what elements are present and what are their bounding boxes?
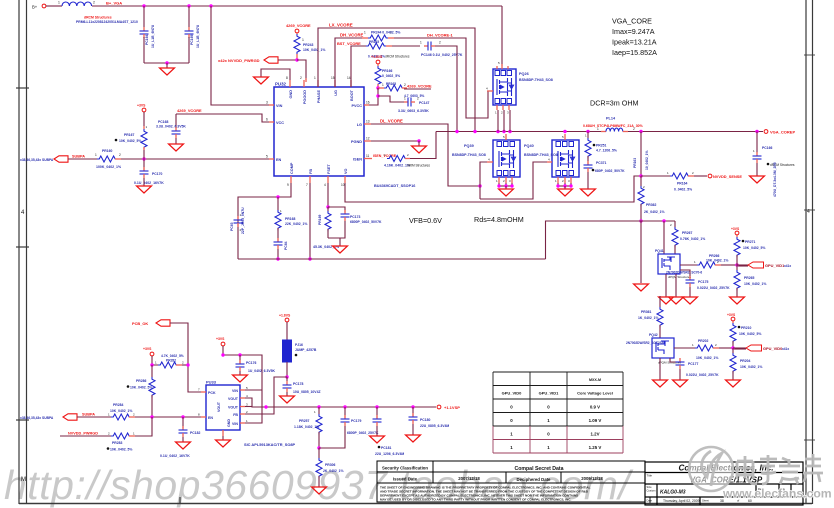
svg-text:SIC APL5913KAC/TR_SO8P: SIC APL5913KAC/TR_SO8P [244, 442, 296, 447]
svg-text:4.7_1206_5%: 4.7_1206_5% [596, 149, 617, 153]
svg-text:14: 14 [347, 76, 351, 80]
svg-text:GPU_VID1: GPU_VID1 [539, 391, 560, 396]
svg-text:+1.1VSP: +1.1VSP [444, 405, 460, 410]
svg-text:4269_VCORE: 4269_VCORE [177, 108, 202, 113]
svg-text:PR164: PR164 [677, 182, 687, 186]
op-amp U1: PWM controller PU32 [274, 87, 364, 176]
wire [92, 5, 502, 7]
svg-text:2K_0402_1%: 2K_0402_1% [323, 469, 344, 473]
svg-text:0_0402_5%: 0_0402_5% [674, 188, 692, 192]
wire B+ to VIN [211, 6, 269, 105]
svg-text:BSN8DP-TH43_SO8: BSN8DP-TH43_SO8 [524, 153, 558, 157]
svg-text:Deciphered Date: Deciphered Date [517, 477, 552, 482]
capacitor PC147 [378, 96, 404, 102]
wire PVCC [369, 88, 378, 105]
ground [166, 63, 168, 68]
capacitor PC182 on EN [182, 417, 184, 428]
resistor PR257 [318, 407, 320, 414]
resistor PR245 [366, 43, 386, 49]
svg-text:x41x: x41x [782, 347, 789, 351]
pin stubs top [289, 80, 291, 87]
svg-text:B+_VGA: B+_VGA [106, 1, 122, 6]
svg-text:0.1U_0402_16V7K: 0.1U_0402_16V7K [160, 454, 190, 458]
svg-text:x42x NVVDD_PWRGD: x42x NVVDD_PWRGD [218, 58, 260, 63]
svg-text:PC165: PC165 [190, 35, 194, 45]
transistor source ground [665, 274, 667, 297]
transistor Q4: PQ41 [663, 221, 665, 254]
svg-text:22U_0805_6.3V4M: 22U_0805_6.3V4M [420, 424, 449, 428]
svg-text:Size: Size [647, 485, 653, 489]
svg-text:SUBPA: SUBPA [72, 155, 85, 159]
right title block [645, 462, 803, 505]
svg-text:GPU_VID1: GPU_VID1 [765, 263, 785, 268]
svg-text:PC179: PC179 [351, 419, 361, 423]
svg-text:PCB_OK: PCB_OK [132, 321, 148, 326]
svg-text:GPU_VID0: GPU_VID0 [763, 346, 782, 351]
svg-text:FSET: FSET [327, 164, 331, 174]
svg-text:VFB=0.6V: VFB=0.6V [409, 216, 442, 225]
svg-text:PR361: PR361 [641, 310, 651, 314]
svg-text:PC180: PC180 [420, 418, 430, 422]
svg-text:PJ16: PJ16 [295, 343, 303, 347]
svg-text:470U_D7.3x4.3M_2R5: 470U_D7.3x4.3M_2R5 [773, 162, 777, 197]
svg-text:3.3U_0402_6.3V5K: 3.3U_0402_6.3V5K [156, 125, 186, 129]
capacitor PC165 [188, 6, 190, 27]
svg-text:1U_L1B_6N7U: 1U_L1B_6N7U [151, 24, 155, 48]
transistor source ground [659, 358, 661, 380]
svg-text:10K_0402_1%: 10K_0402_1% [110, 409, 132, 413]
svg-text:www.elecfans.com: www.elecfans.com [722, 487, 832, 501]
svg-text:2: 2 [633, 127, 635, 131]
svg-text:10K_0402_1%: 10K_0402_1% [744, 282, 766, 286]
svg-text:PC177: PC177 [688, 362, 698, 366]
capacitor PC177 [670, 358, 678, 362]
svg-text:GND: GND [289, 90, 293, 99]
svg-text:PC173: PC173 [350, 215, 360, 219]
svg-text:PL14: PL14 [606, 117, 616, 121]
svg-text:1: 1 [404, 97, 406, 101]
svg-text:VIN: VIN [232, 422, 238, 426]
svg-text:1K_0402_1%: 1K_0402_1% [638, 316, 659, 320]
svg-text:VIN: VIN [276, 104, 283, 108]
capacitor PC371 [584, 161, 593, 172]
svg-text:Issued Date: Issued Date [393, 477, 418, 482]
svg-text:2: 2 [439, 41, 441, 45]
svg-text:+3VS: +3VS [216, 337, 225, 341]
svg-text:COMP: COMP [290, 162, 294, 174]
svg-text:x41x: x41x [784, 264, 791, 268]
svg-text:10U_0805_10V4Z: 10U_0805_10V4Z [293, 390, 321, 394]
svg-text:MXX-M: MXX-M [589, 378, 601, 382]
feedback bus [546, 221, 676, 259]
svg-text:PCK: PCK [208, 391, 216, 395]
svg-text:9: 9 [287, 183, 289, 187]
svg-text:dRtM Structures: dRtM Structures [407, 164, 430, 168]
svg-text:JUMP_4257B: JUMP_4257B [295, 348, 317, 352]
svg-text:7: 7 [306, 183, 308, 187]
svg-text:2: 2 [404, 83, 406, 87]
svg-text:10K_0402_5%: 10K_0402_5% [743, 246, 765, 250]
resistor PR265 [736, 265, 738, 270]
svg-text:PR306: PR306 [325, 463, 335, 467]
svg-text:VGA_CORE: VGA_CORE [612, 17, 652, 26]
capacitor PC180 [412, 407, 414, 416]
svg-text:15: 15 [331, 76, 335, 80]
sheet border bottom [19, 503, 812, 505]
svg-text:0.76K_0402_1%: 0.76K_0402_1% [680, 237, 705, 241]
transistor Q3: PQ40 [552, 140, 579, 177]
svg-text:dPQM Structures: dPQM Structures [668, 275, 692, 279]
transistor Q1: PQ26 [501, 6, 503, 66]
svg-text:0.9 V: 0.9 V [590, 405, 600, 410]
svg-text:PR202: PR202 [698, 339, 708, 343]
svg-text:UG: UG [334, 90, 338, 96]
svg-text:10K_0402_1%: 10K_0402_1% [706, 259, 728, 263]
sheet border left [16, 0, 29, 504]
wire FB [309, 183, 311, 259]
capacitor PC175 [680, 270, 690, 276]
capacitor PC166 output [756, 132, 758, 154]
svg-text:Core Voltage Level: Core Voltage Level [577, 391, 613, 396]
svg-text:1: 1 [420, 41, 422, 45]
svg-text:6800P_0402_25V7K: 6800P_0402_25V7K [347, 431, 379, 435]
svg-text:22U_1206_6.3V4M: 22U_1206_6.3V4M [375, 452, 404, 456]
svg-text:+3VS: +3VS [143, 347, 152, 351]
svg-text:2: 2 [417, 97, 419, 101]
resistor PR164 / node NVVDD_SENSE [641, 175, 670, 177]
svg-text:BU4369CADT_SSOP16: BU4369CADT_SSOP16 [374, 184, 415, 188]
svg-text:2: 2 [93, 1, 95, 5]
wire [144, 62, 189, 64]
svg-text:PR362: PR362 [646, 203, 656, 207]
svg-text:PR284: PR284 [113, 403, 123, 407]
capacitor PC178 [283, 381, 292, 392]
svg-text:PC168: PC168 [158, 120, 168, 124]
svg-text:dRCM Structures: dRCM Structures [385, 55, 410, 59]
svg-text:2: 2 [119, 153, 121, 157]
svg-text:2K_0402_1%: 2K_0402_1% [644, 210, 665, 214]
svg-text:BOOT: BOOT [350, 89, 354, 101]
svg-text:PC63: PC63 [230, 222, 234, 231]
svg-text:12: 12 [366, 137, 370, 141]
svg-text:PC175: PC175 [698, 280, 708, 284]
capacitor PC168 [175, 114, 177, 127]
wire COMP [238, 183, 291, 259]
leaf circle [689, 447, 733, 491]
svg-text:1: 1 [314, 76, 316, 80]
capacitor PC170 [140, 167, 149, 178]
capacitor PC164 [143, 6, 145, 27]
svg-text:x38,36,35,43x SUBPA: x38,36,35,43x SUBPA [20, 416, 54, 420]
svg-text:1.25 V: 1.25 V [589, 445, 602, 450]
svg-text:+3VS: +3VS [731, 227, 740, 231]
svg-text:PR283: PR283 [112, 441, 122, 445]
svg-text:BST_VCORE: BST_VCORE [337, 41, 361, 46]
svg-text:PHASE: PHASE [317, 90, 321, 104]
svg-text:GPU_VID0: GPU_VID0 [502, 391, 523, 396]
svg-text:PC181: PC181 [381, 446, 391, 450]
svg-text:PC164: PC164 [145, 35, 149, 45]
resistor PR362 [640, 176, 642, 186]
svg-text:1.2V: 1.2V [590, 432, 599, 437]
capacitor PC181 [376, 407, 378, 418]
svg-text:PC170: PC170 [152, 172, 162, 176]
resistor PR202 [674, 347, 695, 349]
svg-text:4.7_0603_5%: 4.7_0603_5% [404, 94, 424, 98]
svg-text:2007/12/18: 2007/12/18 [458, 476, 480, 481]
resistor PR251 snubber [587, 132, 589, 139]
transistor Q5: PQ42 [652, 338, 674, 358]
svg-text:PR168: PR168 [285, 217, 295, 221]
svg-text:+1.8VS: +1.8VS [371, 55, 383, 59]
svg-text:DCR=3m OHM: DCR=3m OHM [590, 99, 639, 108]
svg-text:FB: FB [309, 169, 313, 174]
svg-text:1: 1 [364, 31, 366, 35]
svg-text:1: 1 [597, 127, 599, 131]
svg-text:+3VS: +3VS [137, 104, 146, 108]
svg-text:PC371: PC371 [596, 161, 606, 165]
svg-text:8: 8 [286, 76, 288, 80]
svg-text:PR169: PR169 [318, 215, 322, 225]
svg-text:1: 1 [302, 38, 304, 42]
svg-text:PGND: PGND [351, 140, 362, 144]
svg-text:LX_VCORE: LX_VCORE [329, 23, 353, 28]
svg-text:100K_0402_1%: 100K_0402_1% [96, 165, 122, 169]
svg-text:B+: B+ [32, 5, 38, 10]
svg-text:DL_VCORE: DL_VCORE [380, 119, 403, 124]
svg-text:SUBPA: SUBPA [82, 413, 95, 417]
capacitor PC64 [274, 238, 283, 249]
svg-text:5: 5 [266, 155, 268, 159]
svg-text:4.7K_0402_5%: 4.7K_0402_5% [161, 354, 184, 358]
svg-text:VIN: VIN [232, 389, 238, 393]
svg-text:1: 1 [382, 83, 384, 87]
svg-text:PR204: PR204 [740, 359, 750, 363]
capacitor PC176 [239, 355, 241, 363]
svg-text:2: 2 [300, 76, 302, 80]
svg-text:1: 1 [95, 153, 97, 157]
svg-text:PQ39: PQ39 [464, 144, 474, 148]
wire BOOT / BST_VCORE [351, 46, 366, 87]
svg-text:PR251: PR251 [596, 144, 606, 148]
node VGA_COREP [764, 130, 768, 134]
svg-text:1: 1 [58, 1, 60, 5]
svg-text:10K_0402_5%: 10K_0402_5% [130, 386, 152, 390]
svg-text:0.1U_0402_16V7K: 0.1U_0402_16V7K [134, 181, 164, 185]
svg-text:EN: EN [208, 416, 213, 420]
node GPU_VID1 [737, 264, 748, 266]
svg-text:6: 6 [266, 118, 268, 122]
wire comp bottom bus [238, 258, 546, 260]
svg-text:PU33: PU33 [206, 380, 217, 385]
svg-text:EN: EN [276, 158, 282, 162]
svg-text:PU32: PU32 [275, 82, 287, 87]
ground at GND pin [261, 69, 290, 80]
svg-text:Title: Title [647, 474, 653, 478]
svg-text:PC182: PC182 [190, 431, 200, 435]
svg-text:NVVDD_PWRGD: NVVDD_PWRGD [68, 432, 98, 436]
wire VO sense [345, 176, 641, 202]
svg-text:MAY BE USED BY OR DISCLOSED TO: MAY BE USED BY OR DISCLOSED TO ANY THIRD… [380, 498, 571, 502]
svg-text:PR160: PR160 [102, 149, 112, 153]
svg-text:10K_0402_1%: 10K_0402_1% [696, 356, 718, 360]
resistor PR361 [659, 296, 661, 307]
ground drop [640, 221, 642, 283]
svg-text:VOUT: VOUT [228, 397, 239, 401]
wire FSET network [327, 183, 329, 207]
transistor Q2: PQ39 [493, 140, 520, 177]
svg-text:4269_VCORE: 4269_VCORE [286, 23, 311, 28]
resistor PR267 [674, 221, 676, 227]
svg-text:PR163: PR163 [633, 158, 637, 168]
svg-text:VCC: VCC [276, 121, 284, 125]
capacitor PC179 [344, 407, 346, 418]
svg-text:PR286: PR286 [136, 379, 146, 383]
svg-text:PR210: PR210 [741, 326, 751, 330]
svg-text:11: 11 [366, 154, 370, 158]
svg-text:PVCC: PVCC [351, 104, 362, 108]
svg-text:BSN8DP-TH43_SO8: BSN8DP-TH43_SO8 [452, 153, 486, 157]
svg-text:LG: LG [357, 123, 362, 127]
svg-text:PC176: PC176 [246, 361, 256, 365]
svg-text:PC166: PC166 [762, 146, 772, 150]
svg-text:VGA_COREP: VGA_COREP [770, 130, 795, 135]
wire UG / DH_VCORE [335, 38, 362, 87]
ground at PGND [371, 140, 419, 142]
svg-text:Date: Date [647, 499, 653, 503]
svg-text:Compal Secret Data: Compal Secret Data [514, 466, 563, 472]
svg-text:1U_0402_6.3V5K: 1U_0402_6.3V5K [248, 369, 276, 373]
svg-text:FB: FB [233, 413, 238, 417]
resistor PR266 [680, 264, 697, 266]
svg-text:2N7002DW/SR2_SC70-6: 2N7002DW/SR2_SC70-6 [666, 271, 702, 275]
svg-text:3: 3 [266, 101, 268, 105]
svg-text:PR265: PR265 [744, 276, 754, 280]
pin stubs left [269, 104, 274, 106]
node GPU_VID0 [733, 347, 746, 349]
svg-text:PR243: PR243 [303, 43, 313, 47]
svg-text:PR266: PR266 [709, 254, 719, 258]
svg-text:1.09 V: 1.09 V [589, 418, 602, 423]
svg-text:DH_VCORE: DH_VCORE [340, 33, 363, 38]
svg-text:10K_0402_1%: 10K_0402_1% [303, 48, 325, 52]
svg-text:NVVDD_SENSE: NVVDD_SENSE [713, 174, 742, 179]
svg-text:PR257: PR257 [299, 419, 309, 423]
svg-text:0.022U_0402_25V7K: 0.022U_0402_25V7K [686, 373, 719, 377]
svg-text:1.18K_0402_1%: 1.18K_0402_1% [294, 425, 319, 429]
svg-text:PQ40: PQ40 [524, 144, 534, 148]
svg-text:PR271: PR271 [745, 240, 755, 244]
svg-text:PC178: PC178 [293, 382, 303, 386]
svg-text:0.022U_0402_25V7K: 0.022U_0402_25V7K [697, 286, 730, 290]
wire VOUT sense column [640, 132, 642, 177]
svg-text:4: 4 [807, 209, 810, 215]
svg-text:M: M [21, 477, 26, 483]
svg-text:4: 4 [324, 183, 326, 187]
svg-text:VOUT: VOUT [217, 401, 221, 412]
svg-text:10_0402_1%: 10_0402_1% [645, 150, 649, 170]
svg-text:GND: GND [227, 419, 231, 427]
svg-text:PGOOD: PGOOD [303, 90, 307, 104]
svg-text:Custom: Custom [647, 489, 656, 493]
resistor PR244 [368, 35, 388, 41]
svg-text:4269_VCORE: 4269_VCORE [407, 84, 432, 89]
wire PHASE to LX node [318, 28, 475, 132]
svg-text:PQ26: PQ26 [519, 72, 529, 76]
svg-text:10K_0402_5%: 10K_0402_5% [110, 448, 132, 452]
pin stubs bottom [290, 176, 292, 183]
resistor PR204 [732, 348, 734, 353]
svg-text:x38,36,35,43x SUBPA: x38,36,35,43x SUBPA [20, 158, 54, 162]
transistor mid pin ground [675, 274, 677, 297]
svg-text:PQ41: PQ41 [655, 249, 664, 253]
svg-text:0_0402_5%: 0_0402_5% [382, 74, 400, 78]
svg-text:PR267: PR267 [682, 231, 692, 235]
svg-text:16: 16 [366, 101, 370, 105]
svg-text:13: 13 [366, 120, 370, 124]
svg-text:10K_0402_5%: 10K_0402_5% [119, 139, 141, 143]
svg-text:10K_0402_5%: 10K_0402_5% [739, 332, 761, 336]
svg-text:PC147: PC147 [419, 101, 429, 105]
svg-text:6800P_0402_50V7K: 6800P_0402_50V7K [350, 220, 382, 224]
svg-text:PR167: PR167 [124, 133, 134, 137]
svg-text:KALG0-M3: KALG0-M3 [660, 490, 686, 496]
svg-text:Thursday, April 02, 2009: Thursday, April 02, 2009 [663, 499, 700, 503]
svg-text:Ipeak=13.21A: Ipeak=13.21A [612, 38, 657, 47]
svg-text:PR245: PR245 [369, 40, 379, 44]
wire [46, 5, 62, 7]
wire PJ16 to FB [245, 377, 287, 414]
svg-text:10K_0402_1%: 10K_0402_1% [740, 365, 762, 369]
svg-text:10: 10 [341, 183, 345, 187]
svg-text:Rds=4.8mOHM: Rds=4.8mOHM [474, 215, 524, 224]
svg-text:dRCM Structures: dRCM Structures [84, 16, 112, 20]
stylized CJK glyph strokes [737, 454, 823, 484]
svg-text:ISEN: ISEN [353, 158, 362, 162]
resistor PR306 [318, 448, 320, 458]
svg-text:2N7002DW/SR2_SOT233: 2N7002DW/SR2_SOT233 [626, 341, 663, 345]
op-amp U2: LDO PU33 [206, 385, 240, 430]
svg-text:PR165: PR165 [386, 82, 396, 86]
pin stubs right [364, 104, 369, 106]
resistor PR165 [378, 87, 384, 89]
svg-text:PR166: PR166 [382, 69, 392, 73]
svg-text:PRM6-L11x22081242051LMA4ST_121: PRM6-L11x22081242051LMA4ST_1210 [76, 20, 138, 24]
svg-text:+3VS: +3VS [727, 313, 736, 317]
svg-text:DH_VCORE-1: DH_VCORE-1 [427, 33, 454, 38]
svg-text:PC64: PC64 [284, 241, 288, 250]
svg-text:Sheet: Sheet [702, 499, 709, 503]
svg-text:Iaep=15.852A: Iaep=15.852A [612, 48, 657, 57]
svg-text:VO: VO [344, 168, 348, 174]
svg-text:BSN8DP-TH43_SO8: BSN8DP-TH43_SO8 [519, 78, 553, 82]
svg-text:PQ42: PQ42 [649, 333, 658, 337]
svg-text:22K_0402_1%: 22K_0402_1% [285, 222, 307, 226]
svg-text:Security Classification: Security Classification [382, 466, 428, 471]
svg-text:3.3U_0603_6.3V5K: 3.3U_0603_6.3V5K [398, 109, 429, 113]
sheet border right [804, 0, 815, 504]
svg-text:VOUT: VOUT [228, 406, 239, 410]
resistor PR168 [277, 197, 279, 210]
svg-text:1U_L1B_6N7U: 1U_L1B_6N7U [196, 24, 200, 48]
svg-text:Imax=9.247A: Imax=9.247A [612, 27, 655, 36]
svg-text:2009/12/18: 2009/12/18 [581, 476, 603, 481]
svg-text:+1.8VS: +1.8VS [279, 314, 291, 318]
svg-text:PR244 0_0402_5%: PR244 0_0402_5% [371, 31, 400, 35]
svg-text:680P_0402_50V7K: 680P_0402_50V7K [595, 169, 625, 173]
resistor PR286 [151, 365, 153, 377]
